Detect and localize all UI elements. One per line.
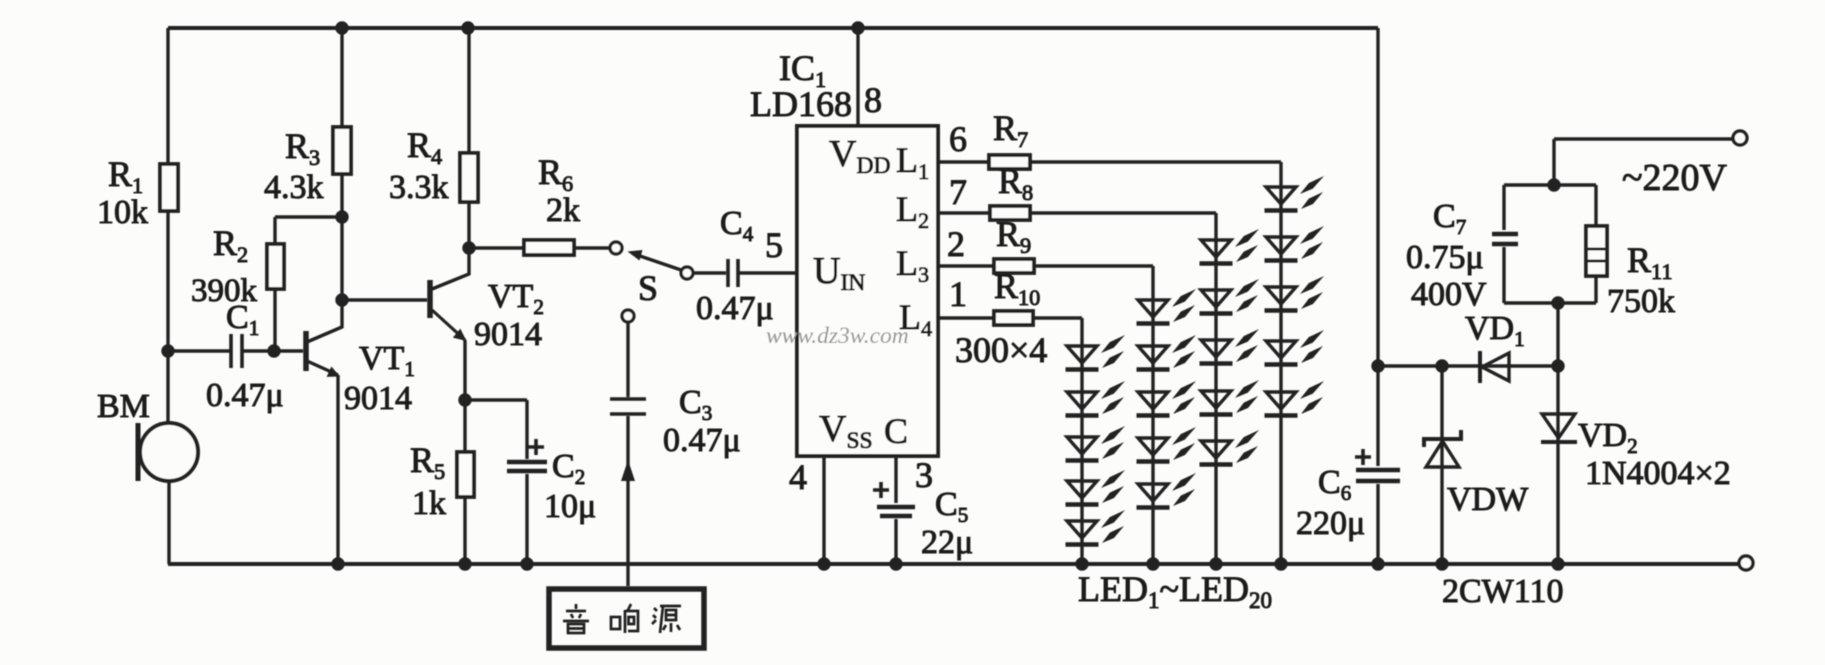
svg-text:C: C xyxy=(884,411,908,451)
svg-text:LD168: LD168 xyxy=(750,84,852,124)
svg-text:9014: 9014 xyxy=(344,380,412,417)
svg-text:10k: 10k xyxy=(97,194,148,231)
svg-text:LED1~LED20: LED1~LED20 xyxy=(1078,569,1272,613)
svg-text:7: 7 xyxy=(949,172,967,212)
svg-text:2k: 2k xyxy=(546,192,580,229)
svg-text:0.47μ: 0.47μ xyxy=(663,422,741,459)
svg-text:5: 5 xyxy=(765,225,783,265)
svg-text:750k: 750k xyxy=(1607,283,1675,320)
svg-text:0.47μ: 0.47μ xyxy=(696,290,774,327)
svg-text:3: 3 xyxy=(915,455,933,495)
svg-text:2: 2 xyxy=(947,224,965,264)
svg-text:~220V: ~220V xyxy=(1622,157,1728,199)
svg-text:8: 8 xyxy=(864,80,882,120)
svg-text:300×4: 300×4 xyxy=(955,330,1047,370)
svg-text:VDW: VDW xyxy=(1447,481,1529,518)
svg-text:2CW110: 2CW110 xyxy=(1442,573,1564,610)
svg-text:10μ: 10μ xyxy=(544,488,596,525)
svg-text:6: 6 xyxy=(949,119,967,159)
svg-text:1k: 1k xyxy=(412,485,446,522)
svg-text:BM: BM xyxy=(97,388,150,425)
svg-text:4.3k: 4.3k xyxy=(264,169,324,206)
svg-text:22μ: 22μ xyxy=(921,524,973,561)
svg-text:4: 4 xyxy=(789,457,807,497)
svg-text:0.75μ: 0.75μ xyxy=(1406,239,1484,276)
svg-text:9014: 9014 xyxy=(474,316,542,353)
svg-text:0.47μ: 0.47μ xyxy=(206,377,284,414)
svg-text:www.dz3w.com: www.dz3w.com xyxy=(766,323,909,349)
svg-text:1N4004×2: 1N4004×2 xyxy=(1585,455,1731,492)
svg-text:3.3k: 3.3k xyxy=(389,169,449,206)
svg-text:S: S xyxy=(638,268,658,308)
svg-text:220μ: 220μ xyxy=(1296,505,1365,542)
svg-text:400V: 400V xyxy=(1411,276,1487,313)
svg-text:1: 1 xyxy=(949,274,967,314)
